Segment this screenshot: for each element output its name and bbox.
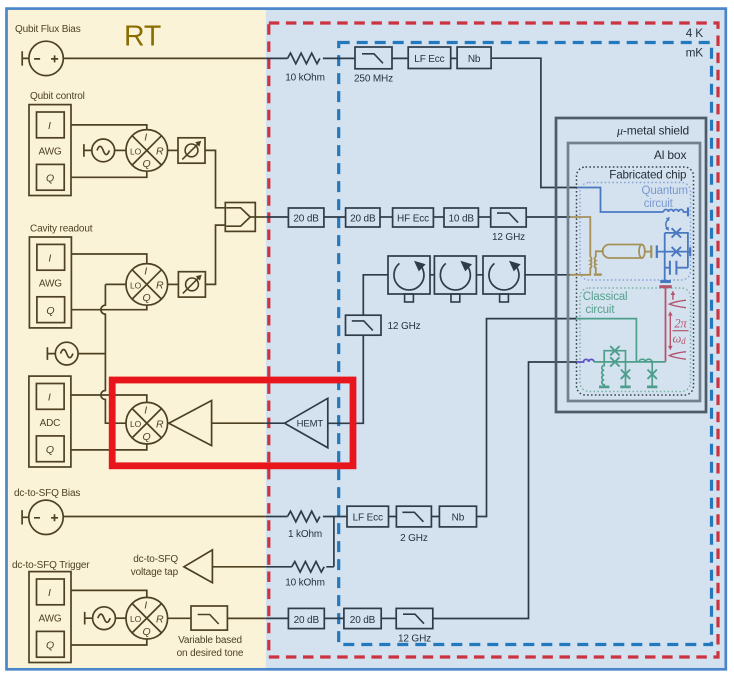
LO bus vertical with hops <box>101 284 126 423</box>
label Qubit Flux Bias <box>15 24 81 35</box>
wire combiner output <box>250 216 288 218</box>
classical circuit outline <box>580 288 691 392</box>
svg-text:HF Ecc: HF Ecc <box>397 214 429 225</box>
qubit drive end bar <box>689 247 691 256</box>
wire ADC I to mixer <box>71 395 147 402</box>
svg-text:10 kOhm: 10 kOhm <box>285 578 325 589</box>
LO source trigger <box>85 607 116 630</box>
attenuator 20 dB b <box>346 208 380 227</box>
svg-text:4 K: 4 K <box>686 26 704 40</box>
series inductor <box>639 359 652 362</box>
wire trigger to chip classical input <box>433 362 577 619</box>
wire <box>381 617 396 619</box>
filter LF Ecc <box>408 47 451 69</box>
wire LO to mixer <box>115 149 126 151</box>
wire flux bias 4K <box>266 57 457 59</box>
small up arrow <box>671 291 676 300</box>
wire ADC Q to mixer <box>71 444 147 450</box>
shunt inductor to ground <box>602 362 604 387</box>
transformer secondary coil <box>595 251 604 273</box>
resistor R1 10 kOhm <box>285 53 325 83</box>
phase shifter P1 <box>178 138 205 163</box>
wire AWG Q to mixer <box>71 639 147 645</box>
junction X loop bottom <box>610 357 619 366</box>
amplifier voltage tap <box>184 550 213 583</box>
svg-text:Quantum: Quantum <box>642 185 688 197</box>
svg-text:Classical: Classical <box>583 291 628 303</box>
wire AWG I to mixer <box>71 125 147 130</box>
junction X loop top <box>610 346 619 355</box>
wire filter to HEMT <box>328 335 364 423</box>
wire circulator links <box>430 274 570 276</box>
AWG U2 cavity readout <box>29 237 71 328</box>
label dc-to-SFQ Trigger <box>12 560 90 571</box>
svg-text:Al box: Al box <box>654 148 687 162</box>
svg-text:Variable based: Variable based <box>178 635 242 646</box>
resistor R3 10 kOhm tap <box>285 562 325 589</box>
svg-text:ADC: ADC <box>40 418 61 429</box>
wire AWG Q to mixer <box>71 171 147 177</box>
attenuator 20 dB a <box>288 208 324 227</box>
svg-text:on desired tone: on desired tone <box>177 648 244 659</box>
label mK <box>686 46 704 60</box>
label 2 pi over omega d <box>672 317 688 347</box>
pulse glyph bottom <box>669 352 686 360</box>
red highlight box <box>112 380 353 466</box>
wire AWG I to mixer <box>71 254 146 264</box>
attenuator 20 dB trig b <box>344 608 381 628</box>
wire bias 4K <box>266 516 440 518</box>
wire LO to mixer <box>115 617 126 619</box>
wire phase shifter to combiner <box>205 225 225 284</box>
classical main line <box>594 361 666 363</box>
svg-text:dc-to-SFQ: dc-to-SFQ <box>133 554 178 565</box>
filter HF Ecc <box>393 208 434 227</box>
LO source qubit control <box>84 139 115 162</box>
svg-text:Qubit Flux Bias: Qubit Flux Bias <box>15 24 81 35</box>
AWG U4 trigger <box>29 572 71 663</box>
shared LO source <box>47 342 78 365</box>
svg-text:20 dB: 20 dB <box>293 214 319 225</box>
amplifier RT <box>169 401 212 446</box>
label Cavity readout <box>30 224 93 235</box>
svg-text:HEMT: HEMT <box>297 419 324 430</box>
svg-text:20 dB: 20 dB <box>350 615 376 626</box>
label dc-to-SFQ Bias <box>14 488 80 499</box>
svg-text:AWG: AWG <box>38 146 61 157</box>
svg-text:AWG: AWG <box>38 613 61 624</box>
circulator C2 <box>434 256 476 302</box>
AWG U1 qubit control <box>29 105 71 196</box>
cryostat light blue background <box>266 9 726 669</box>
wire voltage tap 4K <box>266 517 334 567</box>
4 K stage red dashed boundary <box>269 23 718 657</box>
wire HEMT to RT amplifier <box>212 422 285 424</box>
svg-text:1 kOhm: 1 kOhm <box>288 529 322 540</box>
wire bias RT <box>63 516 266 518</box>
flux line end bar <box>687 207 689 216</box>
wire circulator C1 to filter <box>363 275 388 315</box>
svg-text:voltage tap: voltage tap <box>131 567 179 578</box>
svg-text:250 MHz: 250 MHz <box>354 74 393 85</box>
svg-text:LF Ecc: LF Ecc <box>414 54 444 65</box>
svg-text:20 dB: 20 dB <box>350 214 376 225</box>
DC source V2 dc-to-SFQ bias <box>22 500 63 534</box>
mu-metal shield box <box>556 118 706 412</box>
wire <box>478 216 490 218</box>
amplifier HEMT <box>285 398 328 448</box>
fabricated chip outline <box>577 167 694 395</box>
drive wire vertical <box>665 287 667 362</box>
filter Nb bias <box>439 506 476 527</box>
wire readout into chip <box>526 216 570 218</box>
junction JJ2 to ground <box>647 362 657 387</box>
filter LF Ecc bias <box>347 506 389 527</box>
mK stage blue dashed boundary <box>339 43 712 645</box>
qubit SQUID loop <box>657 233 690 281</box>
qubit junction X middle <box>672 247 681 256</box>
wire filter to attenuators <box>227 617 288 619</box>
svg-text:circuit: circuit <box>644 198 674 210</box>
svg-text:AWG: AWG <box>39 279 62 290</box>
wire amp to mixer <box>168 422 169 424</box>
low-pass filter variable tone <box>177 606 244 659</box>
input inductor purple <box>577 359 594 362</box>
wire shared LO to LO bus <box>78 353 105 355</box>
wire <box>324 216 346 218</box>
filter Nb <box>457 47 491 69</box>
power combiner <box>225 203 255 232</box>
inductor ground bar <box>599 386 609 388</box>
period double arrow <box>668 311 673 350</box>
svg-text:12 GHz: 12 GHz <box>398 634 431 645</box>
mixer M3 ADC downconversion <box>126 402 168 444</box>
wire flux bias RT <box>63 57 265 59</box>
Al box <box>568 143 700 401</box>
svg-text:mK: mK <box>686 46 704 60</box>
circulator C1 <box>388 256 430 302</box>
ADC U3 <box>29 376 71 467</box>
wire phase shifter to combiner <box>205 150 225 207</box>
circulator C3 <box>483 256 525 302</box>
wire <box>433 216 444 218</box>
qubit ground <box>660 280 671 283</box>
DC source V1 qubit flux bias <box>22 41 63 75</box>
svg-text:2π: 2π <box>674 317 687 331</box>
low-pass filter 250 MHz <box>354 47 393 85</box>
transformer primary coil <box>570 257 592 275</box>
flux coupling arrow <box>665 217 670 231</box>
label 4 K <box>686 26 704 40</box>
svg-text:Cavity readout: Cavity readout <box>30 224 93 235</box>
svg-text:10 dB: 10 dB <box>449 214 475 225</box>
wire AWG Q to mixer <box>71 305 146 310</box>
low-pass filter 12 GHz HEMT input <box>346 315 421 335</box>
label RT <box>124 20 161 52</box>
svg-text:10 kOhm: 10 kOhm <box>285 73 325 84</box>
resonator cavity cylinder <box>603 245 652 259</box>
wire <box>380 216 393 218</box>
low-pass filter 12 GHz trigger <box>396 608 433 644</box>
svg-text:Fabricated chip: Fabricated chip <box>609 169 686 182</box>
wire bias to chip classical input <box>477 319 577 517</box>
classical input wire top <box>576 319 636 362</box>
readout input wire tan <box>570 217 590 257</box>
svg-text:20 dB: 20 dB <box>294 615 320 626</box>
low-pass filter 12 GHz readout <box>491 208 527 243</box>
wire AWG I to mixer <box>71 590 147 597</box>
wire <box>324 617 344 619</box>
mixer M4 trigger <box>126 597 168 639</box>
wire mixer to phase shifter <box>168 283 179 285</box>
mixer M1 qubit control <box>126 130 168 172</box>
svg-text:RT: RT <box>124 20 161 52</box>
wire flux bias to chip <box>491 58 577 187</box>
svg-text:Nb: Nb <box>468 54 481 65</box>
SFQ SQUID loop <box>604 351 625 362</box>
svg-text:LF Ecc: LF Ecc <box>353 513 383 524</box>
svg-text:12 GHz: 12 GHz <box>492 232 525 243</box>
low-pass filter 2 GHz <box>396 506 431 544</box>
pulse glyph top <box>669 300 686 308</box>
wire mixer to phase shifter <box>168 149 178 151</box>
svg-text:Qubit control: Qubit control <box>30 91 85 102</box>
drive node bar <box>659 285 672 288</box>
RT room-temperature cream background <box>7 9 266 669</box>
label dc-to-SFQ voltage tap <box>131 554 179 578</box>
attenuator 10 dB <box>444 208 478 227</box>
resistor R2 1 kOhm <box>288 511 323 540</box>
svg-text:2 GHz: 2 GHz <box>400 533 428 544</box>
junction JJ1 to ground <box>620 362 630 387</box>
label Qubit control <box>30 91 85 102</box>
flux line wire blue <box>577 188 663 213</box>
mixer M2 cavity readout <box>126 264 168 306</box>
svg-text:circuit: circuit <box>585 304 615 316</box>
wire voltage tap RT <box>212 566 265 568</box>
transformer ground bar <box>594 273 602 275</box>
svg-text:dc-to-SFQ Trigger: dc-to-SFQ Trigger <box>12 560 90 571</box>
svg-text:12 GHz: 12 GHz <box>388 321 421 332</box>
wire mixer M2 LO <box>105 283 126 285</box>
phase shifter P2 <box>178 272 205 297</box>
coupling capacitor resonator-qubit <box>651 245 657 258</box>
qubit junction X top <box>672 228 681 237</box>
flux line inductor <box>664 210 689 213</box>
wire mixer to variable filter <box>168 617 191 619</box>
svg-text:dc-to-SFQ Bias: dc-to-SFQ Bias <box>14 488 80 499</box>
quantum circuit outline <box>580 183 691 281</box>
svg-text:μ-metal shield: μ-metal shield <box>616 124 689 138</box>
svg-text:Nb: Nb <box>452 513 465 524</box>
attenuator 20 dB trig a <box>288 608 324 628</box>
qubit shunt capacitor <box>670 261 677 275</box>
